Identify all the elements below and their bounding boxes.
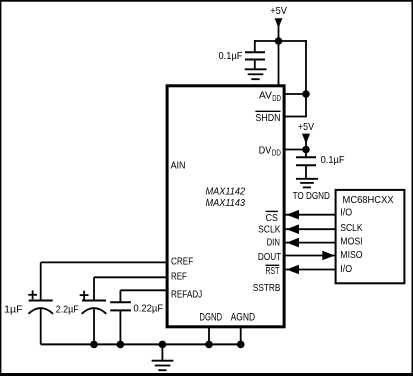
svg-text:SCLK: SCLK: [258, 223, 280, 235]
svg-text:DD: DD: [272, 149, 281, 158]
svg-text:2.2µF: 2.2µF: [56, 303, 79, 315]
svg-text:CREF: CREF: [171, 256, 193, 268]
svg-text:AGND: AGND: [231, 311, 256, 323]
svg-text:TO DGND: TO DGND: [293, 190, 331, 202]
svg-text:SCLK: SCLK: [340, 222, 362, 234]
svg-text:DIN: DIN: [267, 237, 280, 249]
svg-text:DOUT: DOUT: [258, 251, 282, 263]
svg-text:MOSI: MOSI: [340, 235, 362, 247]
svg-text:0.1µF: 0.1µF: [219, 50, 243, 62]
svg-text:DGND: DGND: [199, 311, 222, 323]
svg-text:RST: RST: [266, 265, 280, 277]
svg-text:0.1µF: 0.1µF: [321, 154, 345, 166]
svg-text:+5V: +5V: [270, 5, 287, 17]
svg-text:1µF: 1µF: [4, 303, 23, 315]
svg-text:I/O: I/O: [340, 207, 352, 219]
svg-text:AV: AV: [259, 89, 272, 101]
svg-text:MAX1143: MAX1143: [206, 197, 246, 209]
svg-text:AIN: AIN: [171, 160, 186, 172]
svg-text:DD: DD: [272, 94, 281, 103]
svg-text:MISO: MISO: [340, 249, 362, 261]
svg-text:CS: CS: [266, 212, 278, 224]
svg-text:REF: REF: [171, 270, 187, 282]
svg-text:SSTRB: SSTRB: [253, 282, 281, 294]
svg-text:I/O: I/O: [340, 263, 352, 275]
svg-text:DV: DV: [259, 144, 272, 156]
svg-text:MC68HCXX: MC68HCXX: [343, 194, 394, 206]
svg-text:REFADJ: REFADJ: [171, 288, 202, 300]
svg-text:+5V: +5V: [298, 121, 314, 133]
svg-text:MAX1142: MAX1142: [206, 186, 246, 198]
svg-text:0.22µF: 0.22µF: [133, 303, 163, 315]
svg-text:SHDN: SHDN: [255, 112, 280, 124]
